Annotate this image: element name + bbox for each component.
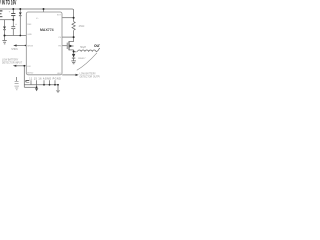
node junction dot EXT/R1 xyxy=(73,17,75,19)
inductor L1 xyxy=(78,50,96,52)
wire junction to C2 xyxy=(12,20,14,27)
svg-text:DETECTOR OUTPUT: DETECTOR OUTPUT xyxy=(80,76,100,78)
capacitor C2 plates xyxy=(11,27,15,29)
svg-text:REF: REF xyxy=(27,24,32,26)
svg-text:DETECTOR INPUT: DETECTOR INPUT xyxy=(2,62,23,64)
svg-text:LOW BATTERY: LOW BATTERY xyxy=(80,73,97,76)
node junction dots top rail xyxy=(4,8,75,88)
Q1 source lead xyxy=(69,41,74,43)
svg-text:1N5817: 1N5817 xyxy=(78,58,86,60)
wire D1 to ground rail xyxy=(4,30,6,36)
wire IC bottom pin stub 3 xyxy=(43,80,45,85)
node junction dot LX xyxy=(73,51,75,53)
diode D1 xyxy=(3,27,6,31)
svg-text:SHDN: SHDN xyxy=(27,46,33,48)
node junction dot CS xyxy=(73,36,75,38)
wire bottom rail to ground arrow xyxy=(57,85,59,90)
capacitor C5 plates xyxy=(15,81,19,83)
node junction dots ground rail xyxy=(4,35,6,37)
ground rail left xyxy=(5,35,27,37)
wire CS pin stub xyxy=(62,36,74,38)
resistor R1 xyxy=(72,22,75,31)
wire ground stub xyxy=(4,36,6,41)
ground arrow GND5 xyxy=(35,88,38,91)
wire node LX to diode D3 xyxy=(73,52,75,54)
wire IC bottom pin stub 1 xyxy=(30,80,32,85)
LBO annotation arrowhead xyxy=(76,74,79,76)
wire R1 to CS node xyxy=(73,30,75,37)
wire LBI annotation line xyxy=(16,65,27,67)
svg-text:SHDN: SHDN xyxy=(11,49,18,51)
ground GND3 under C5 xyxy=(14,86,19,90)
wire SHDN annotation line xyxy=(16,45,26,47)
node junction dot LBI xyxy=(23,65,25,67)
capacitor C6 corner plates xyxy=(26,81,29,83)
wire inductor lead left xyxy=(74,51,77,53)
wire D2 to ground rail xyxy=(19,16,21,35)
capacitor C1 plates xyxy=(11,14,15,16)
wire IC bottom pin stub 2 xyxy=(36,80,38,88)
node junction dots bottom rail xyxy=(36,86,38,88)
svg-text:+: + xyxy=(15,22,17,26)
svg-text:+: + xyxy=(9,10,11,14)
ground GND1 xyxy=(2,41,6,44)
LBI annotation arrowhead xyxy=(13,65,16,67)
wire C2 to ground rail xyxy=(12,29,14,35)
Q1 body arrow xyxy=(70,45,73,48)
wire Q1 drain to node LX xyxy=(73,50,75,52)
wire D3 cathode to ground xyxy=(73,58,75,60)
svg-text:LBO: LBO xyxy=(57,73,62,75)
svg-text:50μH: 50μH xyxy=(80,46,86,49)
battery B1 bars xyxy=(0,11,2,17)
svg-text:LOW BATTERY: LOW BATTERY xyxy=(2,58,19,61)
svg-text:47kΩ: 47kΩ xyxy=(79,25,85,28)
svg-text:GND: GND xyxy=(27,34,32,36)
SHDN annotation arrowhead xyxy=(13,44,16,46)
wire V+ to resistor R1 xyxy=(73,18,75,22)
wire IC bottom pin stub 4 xyxy=(49,80,51,85)
node junction dot C1/C2 xyxy=(12,19,14,21)
wire LBO annotation line xyxy=(62,74,75,76)
wire V+ stub xyxy=(43,9,45,12)
svg-text:LBI: LBI xyxy=(27,66,31,68)
wire EXT pin stub xyxy=(62,17,74,19)
wire C1 top xyxy=(12,9,14,13)
diode D3 xyxy=(72,54,75,59)
wire inductor output lead xyxy=(96,48,100,52)
svg-text:11 15 16 AGND PGND: 11 15 16 AGND PGND xyxy=(29,77,61,80)
svg-text:V IN TO 16V: V IN TO 16V xyxy=(0,0,17,7)
wire D2 top xyxy=(19,9,21,12)
wire bottom rail under IC xyxy=(24,84,58,86)
wire down to diode D1 xyxy=(4,20,6,27)
ground arrow GND4 xyxy=(56,90,60,93)
wire bypass cap C5 stub xyxy=(16,77,18,81)
wire LBI junction down xyxy=(23,66,25,88)
wire gate stub EXT xyxy=(62,45,67,47)
wire C1 bottom to junction xyxy=(12,16,14,20)
Q1 body lead xyxy=(72,45,74,47)
op-amp U1 MAX774 IC body xyxy=(26,12,62,75)
svg-text:MAX774: MAX774 xyxy=(40,28,54,32)
wire CS node to Q1 source xyxy=(73,37,75,42)
svg-text:AGND: AGND xyxy=(27,72,34,75)
ground GND2 under D3 xyxy=(71,61,76,64)
diode D2 xyxy=(19,12,22,16)
wire bottom rail 2 xyxy=(24,86,36,88)
transistor Q1 P-FET gate bar xyxy=(66,43,68,49)
Q1 channel bar xyxy=(68,41,70,50)
svg-text:OUT: OUT xyxy=(94,44,100,48)
wire battery bottom to C1 xyxy=(0,19,13,21)
wire IC bottom pin stub 5 xyxy=(54,80,56,85)
wire leader line to output node xyxy=(77,53,97,71)
Q1 drain lead xyxy=(69,49,74,51)
node VIN top rail wire xyxy=(0,9,74,18)
